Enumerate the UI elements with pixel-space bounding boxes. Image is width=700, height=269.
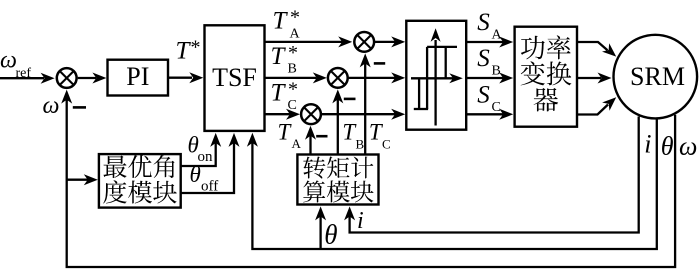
label omega feedback	[43, 93, 60, 119]
summing junction X1	[57, 68, 77, 88]
label TC	[369, 119, 391, 151]
wire TB up to junction B	[332, 89, 343, 154]
block torque calculation module	[297, 155, 378, 205]
wire theta feedback	[247, 120, 657, 250]
wire junction C to hysteresis	[321, 109, 405, 120]
wire theta branch to torque module	[315, 206, 326, 249]
svg-text:A: A	[492, 28, 503, 43]
svg-text:A: A	[290, 26, 301, 41]
wire theta_on to TSF	[181, 133, 221, 166]
svg-text:B: B	[356, 137, 365, 152]
wire converter to SRM middle	[577, 73, 612, 84]
svg-text:A: A	[292, 136, 302, 151]
hysteresis rising transition	[445, 47, 447, 78]
hysteresis vertical axis	[431, 28, 441, 125]
label SB	[477, 45, 501, 79]
summing junction X3 phase B	[328, 68, 348, 88]
wire junction B to hysteresis	[348, 72, 406, 83]
summing junction X2 phase A	[354, 32, 374, 52]
minus sign at junction B	[344, 98, 356, 101]
svg-text:θ: θ	[661, 132, 674, 161]
svg-text:T: T	[176, 37, 192, 64]
svg-text:ω: ω	[679, 132, 697, 161]
wire TC up to junction A	[360, 53, 371, 154]
minus sign at junction C	[316, 135, 327, 138]
svg-text:*: *	[191, 36, 201, 58]
wire SB	[466, 73, 513, 84]
label omega_ref	[0, 48, 31, 82]
wire TA up to junction C	[305, 126, 316, 155]
svg-text:*: *	[290, 7, 300, 29]
svg-text:S: S	[477, 9, 490, 36]
svg-text:C: C	[382, 137, 391, 152]
wire TC* line	[265, 109, 301, 120]
block optimal angle module	[99, 154, 181, 208]
svg-text:T: T	[278, 119, 293, 144]
svg-text:S: S	[477, 45, 490, 72]
wire TA* line	[265, 36, 353, 47]
wire PI to TSF	[168, 72, 203, 83]
wire SC	[466, 109, 513, 120]
svg-text:θ: θ	[324, 220, 337, 250]
svg-text:i: i	[644, 129, 651, 158]
svg-text:B: B	[492, 64, 501, 79]
label theta into torque module	[324, 220, 337, 250]
label TB	[342, 119, 364, 151]
svg-text:ω: ω	[43, 93, 60, 119]
label theta SRM output	[661, 132, 674, 161]
svg-text:SRM: SRM	[630, 62, 685, 91]
svg-text:θ: θ	[190, 162, 201, 187]
label i SRM output	[644, 129, 651, 158]
label TB*	[271, 42, 299, 77]
label TA*	[273, 7, 301, 42]
wire TB* line	[265, 72, 327, 83]
label TC*	[271, 78, 299, 113]
label T*	[176, 36, 201, 64]
svg-text:T: T	[273, 8, 289, 35]
minus sign at junction A	[374, 62, 385, 65]
label i into torque module	[357, 208, 364, 234]
hysteresis falling transition	[426, 47, 428, 109]
svg-text:T: T	[271, 43, 287, 70]
block TSF	[205, 25, 265, 131]
wire junction to PI	[78, 73, 107, 84]
wire SA	[466, 37, 513, 48]
svg-text:S: S	[477, 82, 490, 109]
svg-text:i: i	[357, 208, 364, 234]
wire i feedback	[344, 117, 639, 233]
hysteresis lower loop left side	[418, 78, 420, 109]
motor SRM	[614, 35, 698, 119]
svg-text:TSF: TSF	[212, 63, 257, 92]
wire converter to SRM bottom	[577, 97, 616, 114]
wire omega feedback bottom	[67, 95, 675, 267]
block hysteresis controller	[406, 21, 466, 130]
wire junction A to hysteresis	[374, 36, 405, 47]
block PI	[108, 60, 169, 96]
svg-text:PI: PI	[126, 62, 149, 91]
label SA	[477, 9, 502, 43]
svg-text:C: C	[492, 100, 501, 115]
svg-text:T: T	[271, 79, 287, 106]
minus sign at summing junction	[73, 106, 86, 109]
label omega SRM output	[679, 132, 697, 161]
wire converter to SRM top	[577, 42, 616, 57]
svg-text:ω: ω	[0, 48, 17, 74]
wire theta_off to TSF	[181, 133, 240, 193]
label theta_off	[190, 162, 219, 195]
hysteresis lower output level	[414, 108, 428, 110]
svg-text:B: B	[288, 62, 297, 77]
wire omega branch to angle module	[67, 174, 98, 185]
hysteresis upper output level	[427, 46, 457, 48]
label theta_on	[188, 133, 214, 166]
summing junction X4 phase C	[301, 104, 321, 124]
block power converter	[515, 27, 577, 127]
wire omega feedback arrow into junction	[61, 90, 72, 104]
wire omega_ref input	[0, 73, 55, 84]
label TA	[278, 119, 302, 151]
label SC	[477, 82, 501, 116]
hysteresis horizontal axis	[411, 73, 463, 83]
